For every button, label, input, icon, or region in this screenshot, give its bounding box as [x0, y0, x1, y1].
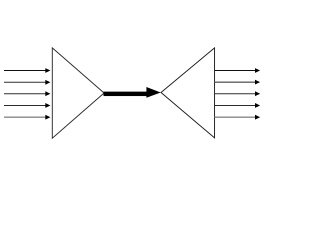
input arrow 2 head — [45, 80, 50, 85]
input arrow 5 shaft (gray) — [4, 116, 46, 118]
output arrow 5 shaft (gray) — [215, 116, 256, 118]
input arrow 5 head — [45, 115, 50, 120]
thick middle arrow head — [146, 87, 160, 98]
output arrow 5 head — [255, 115, 260, 120]
input arrow 4 shaft — [4, 104, 46, 106]
output arrow 3 head — [255, 91, 260, 96]
left converging triangle — [52, 48, 104, 138]
input arrow 3 shaft — [4, 93, 46, 95]
output arrow 1 head — [255, 68, 260, 73]
right diverging triangle — [161, 48, 215, 138]
input arrow 4 head — [45, 103, 50, 108]
output arrow 1 shaft — [215, 69, 256, 71]
input arrow 1 head — [45, 68, 50, 73]
input arrow 2 shaft — [4, 81, 46, 83]
input arrow 1 shaft — [4, 69, 46, 71]
output arrow 4 head — [255, 103, 260, 108]
output arrow 2 shaft (gray) — [215, 81, 256, 83]
thick middle arrow shaft — [104, 92, 147, 96]
input arrow 3 head — [45, 91, 50, 96]
output arrow 3 shaft — [215, 93, 256, 95]
output arrow 4 shaft — [215, 104, 256, 106]
output arrow 2 head — [255, 80, 260, 85]
